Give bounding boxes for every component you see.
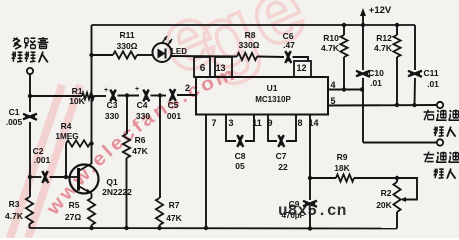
wire pin4 down-right to left channel terminal bbox=[362, 90, 364, 143]
svg-text:330Ω: 330Ω bbox=[239, 40, 260, 50]
svg-text:+: + bbox=[104, 87, 108, 94]
resistor R4 bbox=[66, 140, 90, 146]
wire R4 left vertical bbox=[65, 144, 67, 178]
potentiometer R2 bbox=[396, 178, 398, 182]
wire bottom rail bbox=[30, 227, 398, 230]
svg-text:001: 001 bbox=[167, 111, 181, 121]
power +12V bbox=[362, 12, 364, 25]
wire R6 top bbox=[126, 96, 128, 135]
resistor R7 bbox=[156, 198, 163, 225]
capacitor C8 branch (pins 3-11) bbox=[226, 115, 236, 142]
capacitor C11 branch bbox=[414, 25, 416, 70]
wire R5 bottom bbox=[91, 225, 93, 228]
resistor R9 bbox=[336, 174, 354, 181]
wire pin 14 down bbox=[309, 115, 311, 201]
wire signal left bbox=[30, 95, 82, 97]
pin 6 box bbox=[194, 57, 210, 77]
svg-text:12: 12 bbox=[296, 63, 306, 73]
resistor R12 branch bbox=[396, 25, 398, 35]
wire R9 right bbox=[354, 177, 397, 179]
svg-text:18K: 18K bbox=[334, 163, 350, 173]
resistor R5 bbox=[88, 198, 95, 225]
svg-text:6: 6 bbox=[200, 63, 206, 74]
svg-text:5: 5 bbox=[330, 96, 335, 106]
svg-text:47K: 47K bbox=[132, 146, 148, 156]
transistor Q1 bbox=[70, 165, 99, 194]
resistor R1 bbox=[82, 93, 94, 99]
svg-text:R10: R10 bbox=[323, 33, 339, 43]
capacitor C7 branch (pins 9-8) bbox=[268, 115, 277, 142]
wire +12V top rail bbox=[92, 24, 416, 26]
wire C6-pin12 bbox=[293, 57, 309, 61]
svg-text:C8: C8 bbox=[235, 151, 246, 161]
svg-text:R4: R4 bbox=[61, 121, 72, 131]
node: multi-channel audio input label bbox=[13, 38, 18, 42]
wire input vertical lower bbox=[29, 224, 31, 228]
right channel terminal bbox=[437, 102, 443, 108]
node junction collector-column/signal bbox=[89, 94, 93, 98]
svg-text:LED: LED bbox=[171, 47, 187, 56]
IC U1 MC1310P bbox=[196, 77, 328, 115]
label right channel input bbox=[424, 111, 435, 113]
svg-text:330: 330 bbox=[136, 111, 150, 121]
svg-text:C1: C1 bbox=[9, 107, 20, 117]
resistor R11 bbox=[113, 51, 137, 58]
svg-text:05: 05 bbox=[235, 161, 245, 171]
svg-text:R12: R12 bbox=[376, 33, 392, 43]
svg-text:.01: .01 bbox=[370, 78, 382, 88]
svg-text:C5: C5 bbox=[168, 100, 179, 110]
wire signal C5-pin2 bbox=[177, 94, 196, 96]
svg-text:C7: C7 bbox=[276, 151, 287, 161]
wire input vertical upper bbox=[29, 74, 31, 112]
svg-text:4.7K: 4.7K bbox=[5, 211, 24, 221]
svg-text:27Ω: 27Ω bbox=[65, 212, 81, 222]
svg-text:R2: R2 bbox=[381, 188, 392, 198]
svg-text:R6: R6 bbox=[135, 135, 146, 145]
capacitor C6 bbox=[285, 51, 290, 63]
svg-text:.005: .005 bbox=[6, 117, 23, 127]
wire signal C4-C5 bbox=[151, 95, 167, 97]
wire R8-C6 bbox=[257, 56, 284, 59]
wire R7 bottom bbox=[159, 225, 161, 228]
wire R7 top bbox=[159, 96, 161, 199]
svg-text:4.7K: 4.7K bbox=[374, 43, 393, 53]
R2 wiper loop bbox=[397, 178, 417, 200]
svg-text:.01: .01 bbox=[427, 79, 439, 89]
pin 13 box bbox=[215, 57, 232, 77]
svg-text:R3: R3 bbox=[9, 199, 20, 209]
left channel terminal bbox=[437, 139, 443, 145]
wire LED-R8 bbox=[172, 55, 238, 58]
svg-text:7: 7 bbox=[211, 118, 216, 128]
svg-text:4.7K: 4.7K bbox=[321, 43, 340, 53]
svg-text:1MEG: 1MEG bbox=[55, 132, 78, 141]
wire signal R1-C3 bbox=[94, 95, 106, 97]
svg-text:330: 330 bbox=[105, 111, 119, 121]
capacitor C5 bbox=[170, 89, 175, 101]
svg-text:+12V: +12V bbox=[369, 5, 392, 16]
svg-text:U1: U1 bbox=[267, 83, 278, 93]
svg-text:C10: C10 bbox=[368, 68, 384, 78]
pin 4 wire bbox=[328, 89, 363, 91]
svg-text:3: 3 bbox=[228, 118, 233, 128]
svg-text:R9: R9 bbox=[337, 152, 348, 162]
capacitor C3 bbox=[110, 90, 115, 102]
svg-text:Q1: Q1 bbox=[106, 177, 118, 187]
resistor R3 bbox=[26, 197, 33, 224]
label left channel input bbox=[424, 154, 435, 156]
pin 7 wire bbox=[205, 115, 207, 229]
wire signal C3-C4 bbox=[118, 95, 140, 97]
watermark layer bbox=[144, 0, 318, 93]
svg-text:C11: C11 bbox=[423, 68, 438, 78]
wire input vertical mid bbox=[29, 122, 31, 197]
svg-text:2N2222: 2N2222 bbox=[102, 187, 132, 197]
node: input terminal bbox=[27, 68, 33, 74]
svg-text:u8x5.cn: u8x5.cn bbox=[278, 202, 347, 220]
svg-text:+: + bbox=[135, 86, 139, 93]
resistor R10 branch bbox=[343, 25, 345, 35]
capacitor C9 bbox=[303, 201, 317, 206]
svg-text:R7: R7 bbox=[169, 200, 180, 210]
capacitor C10 branch bbox=[362, 25, 364, 70]
svg-text:C3: C3 bbox=[107, 100, 118, 110]
svg-text:R8: R8 bbox=[245, 30, 256, 40]
wire emitter bbox=[91, 194, 93, 199]
wire R9 left bbox=[310, 177, 336, 179]
wire base bbox=[30, 176, 42, 178]
svg-text:MC1310P: MC1310P bbox=[255, 95, 291, 104]
capacitor C1 bbox=[23, 114, 37, 119]
svg-text:4: 4 bbox=[330, 80, 335, 90]
wire R11 left bbox=[92, 54, 114, 56]
svg-text:22: 22 bbox=[278, 162, 288, 172]
svg-text:47K: 47K bbox=[166, 213, 182, 223]
capacitor C4 bbox=[143, 90, 148, 102]
svg-text:C4: C4 bbox=[137, 100, 148, 110]
svg-text:20K: 20K bbox=[376, 200, 392, 210]
wire R11-LED bbox=[137, 54, 153, 56]
svg-text:R5: R5 bbox=[69, 200, 80, 210]
svg-text:11: 11 bbox=[252, 118, 262, 128]
svg-text:R1: R1 bbox=[72, 86, 83, 96]
svg-text:330Ω: 330Ω bbox=[117, 41, 138, 51]
resistor R6 bbox=[123, 134, 130, 158]
wire C9 bottom bbox=[309, 208, 311, 229]
resistor R8 bbox=[237, 53, 257, 60]
svg-text:.001: .001 bbox=[34, 155, 51, 165]
wire R6 bottom bbox=[126, 158, 128, 228]
svg-text:.47: .47 bbox=[283, 40, 295, 50]
svg-text:8: 8 bbox=[297, 118, 302, 128]
svg-text:13: 13 bbox=[215, 63, 225, 73]
svg-text:R11: R11 bbox=[119, 30, 134, 40]
pin 5 wire bbox=[328, 104, 437, 107]
LED D1 bbox=[153, 43, 172, 62]
capacitor C2 bbox=[42, 171, 47, 183]
svg-text:10K: 10K bbox=[69, 96, 85, 106]
svg-text:2: 2 bbox=[185, 83, 190, 93]
wire collector column bbox=[91, 25, 93, 164]
pin 12 box bbox=[294, 61, 311, 77]
